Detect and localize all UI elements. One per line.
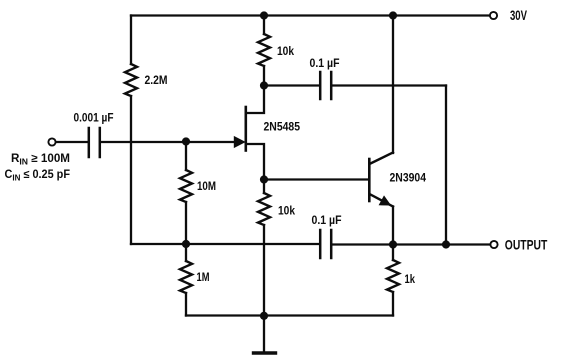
wire top cap to right vertical branch: [332, 84, 446, 86]
wire input terminal to 0.001uF cap: [56, 141, 88, 143]
wire 1k top lead: [392, 245, 394, 261]
svg-text:0.001 µF: 0.001 µF: [74, 113, 114, 125]
JFET drain lead: [247, 86, 265, 114]
wire collector to top rail: [392, 16, 394, 154]
svg-text:10M: 10M: [197, 181, 216, 193]
node dot bias 10M/1M: [182, 240, 190, 248]
wire bias line from 2.2M bottom to bottom 0.1uF cap: [131, 243, 319, 245]
svg-text:2N5485: 2N5485: [264, 122, 301, 134]
svg-text:2N3904: 2N3904: [390, 173, 427, 185]
capacitor 0.1uF top right plate: [330, 72, 333, 99]
svg-text:1k: 1k: [405, 274, 416, 286]
svg-text:1M: 1M: [197, 272, 210, 284]
capacitor 0.1uF bottom right plate: [330, 230, 333, 258]
terminal input: [48, 138, 55, 145]
svg-text:OUTPUT: OUTPUT: [505, 236, 548, 252]
resistor 10k (source): [258, 193, 270, 225]
wire right vertical branch down to output line: [445, 86, 447, 245]
svg-text:10k: 10k: [277, 46, 295, 58]
wire top supply rail: [131, 14, 490, 16]
ground symbol bar: [254, 351, 276, 354]
resistor R 2.2M: [125, 64, 137, 96]
node dot source/base: [260, 175, 268, 183]
terminal 30V: [490, 12, 497, 19]
node dot emitter/1k/output: [389, 240, 397, 248]
wire 1M bottom lead to ground line: [185, 293, 187, 316]
node dot drain: [260, 81, 268, 89]
node dot gate/10M: [182, 137, 190, 145]
node dot ground: [260, 312, 268, 320]
wire emitter down to output line: [392, 207, 394, 245]
capacitor 0.1uF bottom left plate: [319, 230, 322, 258]
svg-text:30V: 30V: [510, 7, 527, 23]
svg-text:2.2M: 2.2M: [145, 75, 168, 87]
capacitor 0.001uF left plate: [88, 128, 91, 157]
wire 10M bottom lead to bias node: [185, 202, 187, 244]
JFET U1 2N5485 channel bar: [245, 107, 248, 151]
wire 10M top lead: [185, 142, 187, 171]
JFET source lead: [247, 144, 265, 180]
node dot cap branch/output: [442, 240, 450, 248]
svg-text:10k: 10k: [278, 206, 296, 218]
resistor 1M: [180, 261, 192, 293]
resistor 10M: [180, 170, 192, 202]
node dot rail/collector: [389, 11, 397, 19]
transistor emitter diagonal: [371, 195, 394, 207]
svg-text:0.1 µF: 0.1 µF: [312, 215, 342, 227]
wire ground stub: [263, 316, 265, 352]
resistor 1k: [387, 260, 399, 292]
node dot rail/10k: [260, 11, 268, 19]
wire 2.2M bottom lead down to bias line: [130, 96, 132, 244]
wire 1M top lead: [185, 244, 187, 261]
wire gate line from cap to JFET gate: [101, 141, 235, 143]
transistor collector diagonal: [371, 153, 394, 164]
terminal OUTPUT: [490, 241, 497, 248]
resistor 10k (drain load): [258, 34, 270, 66]
capacitor 0.1uF top left plate: [319, 72, 322, 99]
wire 10k source resistor top lead: [263, 180, 265, 194]
wire 10k source resistor bottom lead to ground line: [263, 225, 265, 316]
wire drain node to top 0.1uF cap: [264, 84, 319, 86]
wire source node to 2N3904 base: [264, 178, 368, 180]
wire 2.2M branch vertical top lead: [130, 16, 132, 65]
wire output line from bottom cap to output terminal: [332, 243, 490, 245]
wire ground line: [186, 314, 393, 316]
wire 1k bottom lead to ground line: [392, 292, 394, 316]
transistor emitter arrowhead: [379, 195, 392, 205]
capacitor 0.001uF right plate: [99, 128, 102, 157]
svg-text:0.1 µF: 0.1 µF: [310, 58, 340, 70]
transistor Q1 2N3904 base bar: [368, 159, 371, 201]
wire 10k bottom lead to drain node: [263, 66, 265, 86]
JFET gate arrowhead: [234, 136, 246, 148]
wire 10k drain resistor top lead: [263, 16, 265, 35]
